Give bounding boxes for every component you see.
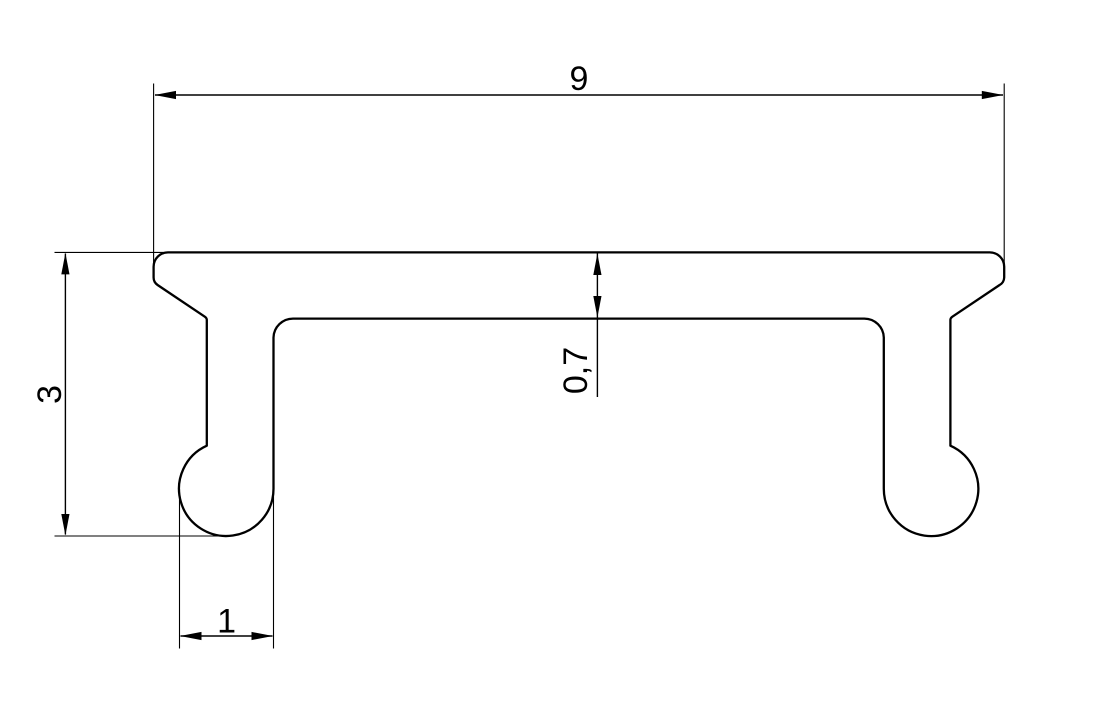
dimension 9: right arrowhead xyxy=(982,91,1004,99)
svg-text:9: 9 xyxy=(570,60,589,98)
svg-text:3: 3 xyxy=(31,385,69,404)
dimension 1: right arrowhead xyxy=(252,632,274,640)
dimension 3: top arrowhead xyxy=(61,253,69,275)
dimension 9: left arrowhead xyxy=(155,91,177,99)
svg-text:1: 1 xyxy=(217,603,236,641)
dimension 3: dimension line xyxy=(64,254,66,535)
dimension 0,7: lower arrowhead xyxy=(593,296,601,318)
dimension 1: dimension line xyxy=(181,635,273,637)
profile outline (extrusion cross-section) xyxy=(154,252,1005,536)
dimension 9: extension line right xyxy=(1003,84,1005,267)
dimension 1: extension line right xyxy=(273,489,275,649)
svg-text:0,7: 0,7 xyxy=(557,347,595,394)
dimension 3: extension line bottom xyxy=(55,535,228,537)
dimension 9: dimension line xyxy=(155,94,1003,96)
dimension 0,7: upper arrowhead xyxy=(593,254,601,276)
dimension 3: bottom arrowhead xyxy=(61,514,69,536)
dimension 1: extension line left xyxy=(179,489,181,649)
dimension 0,7: dimension/leader line xyxy=(596,252,598,397)
dimension 3: extension line top xyxy=(55,251,169,253)
dimension 9: extension line left xyxy=(153,84,155,267)
dimension 1: left arrowhead xyxy=(180,632,202,640)
